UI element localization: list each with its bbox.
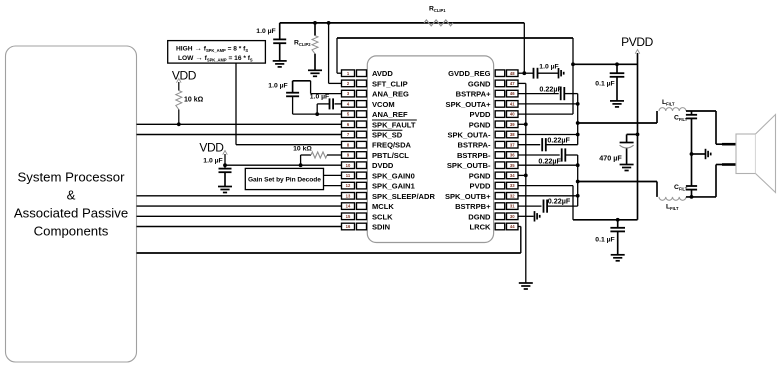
label C_FILT (top) bbox=[674, 115, 688, 123]
pin 31 BSTRPB+ (right) bbox=[455, 202, 518, 211]
svg-text:LRCK: LRCK bbox=[470, 223, 492, 232]
label 0.1 uF (C10) bbox=[595, 80, 614, 87]
wire PGND pin34 stub bbox=[518, 174, 526, 176]
ground (C11) bbox=[620, 165, 634, 171]
power PVDD label bbox=[621, 35, 653, 49]
pin 2 SFT_CLIP (left) bbox=[342, 79, 408, 88]
wire filter B junction bbox=[686, 196, 716, 198]
svg-text:1.0 µF: 1.0 µF bbox=[256, 28, 275, 35]
wire output B to filter bbox=[578, 182, 657, 197]
svg-text:38: 38 bbox=[510, 132, 515, 137]
pin 33 PVDD (right) bbox=[470, 182, 518, 191]
pin 16 SDIN (left) bbox=[342, 223, 391, 232]
label 10 kOhm (R1) bbox=[184, 97, 204, 104]
svg-text:VDD: VDD bbox=[172, 69, 197, 83]
svg-text:470 µF: 470 µF bbox=[599, 154, 622, 163]
node PGND pin34 junction bbox=[524, 174, 528, 178]
svg-text:39: 39 bbox=[510, 122, 515, 127]
pin 41 SPK_OUTA+ (right) bbox=[446, 100, 518, 109]
capacitor C8 0.22uF (BSTRPB-) bbox=[518, 148, 578, 195]
wire SFT_CLIP top rail bbox=[280, 22, 525, 24]
wire SPK_OUTA- stub bbox=[518, 134, 578, 136]
svg-text:SDIN: SDIN bbox=[372, 223, 390, 232]
svg-text:10: 10 bbox=[346, 163, 351, 168]
wire SPK_GAIN0 net bbox=[324, 174, 342, 176]
system processor block bbox=[6, 46, 137, 362]
terminal VDD (lower) bbox=[223, 151, 228, 155]
wire MCLK net (processor to pin 14) bbox=[137, 205, 342, 207]
svg-text:10 kΩ: 10 kΩ bbox=[184, 97, 204, 104]
pin 5 ANA_REF (left) bbox=[342, 110, 409, 119]
svg-text:48: 48 bbox=[510, 71, 515, 76]
pin 30 DGND (right) bbox=[468, 212, 518, 221]
svg-text:16: 16 bbox=[346, 224, 351, 229]
capacitor C3 1.0 uF (VCOM) bbox=[317, 98, 341, 114]
node SFT_CLIP branch bbox=[327, 21, 331, 25]
svg-text:1.0 µF: 1.0 µF bbox=[310, 93, 329, 100]
label L_FILT (top) bbox=[662, 99, 675, 107]
label L_FILT (bottom) bbox=[666, 204, 679, 212]
svg-text:36: 36 bbox=[510, 153, 515, 158]
wire SDIN net (processor to pin 16) bbox=[137, 226, 342, 228]
node R2/DVDD junction bbox=[299, 163, 303, 167]
node DVDD/C4 junction bbox=[223, 163, 227, 167]
svg-text:Associated Passive: Associated Passive bbox=[14, 206, 128, 221]
wire SPK_FAULT net (processor to pin 6) bbox=[137, 123, 342, 125]
svg-text:14: 14 bbox=[346, 204, 351, 209]
node SPK_OUTB+ junction bbox=[576, 194, 580, 198]
ground (filter midpoint, sideways) bbox=[692, 149, 711, 159]
node 470uF junction bbox=[636, 133, 640, 137]
speaker terminal - (thick) bbox=[722, 163, 737, 166]
label 0.22uF (C6) bbox=[539, 85, 562, 94]
svg-text:SCLK: SCLK bbox=[372, 212, 393, 221]
svg-text:37: 37 bbox=[510, 142, 515, 147]
pin 3 ANA_REG (left) bbox=[342, 90, 410, 99]
svg-text:1.0 µF: 1.0 µF bbox=[203, 157, 222, 164]
speaker terminal + (thick) bbox=[722, 143, 737, 146]
note box FREQ select bbox=[168, 41, 266, 64]
node SPK_OUTA+ junction bbox=[576, 102, 580, 106]
pin 34 PGND (right) bbox=[469, 171, 518, 180]
wire FREQ/SDA net (note box to pin 8) bbox=[236, 63, 342, 145]
wire SCLK net (processor to pin 15) bbox=[137, 215, 342, 217]
wire GGND/PGND ground rail bbox=[518, 83, 526, 283]
ground (C5, sideways) bbox=[559, 68, 564, 78]
svg-text:PVDD: PVDD bbox=[470, 182, 492, 191]
label 0.1 uF (C12) bbox=[595, 236, 614, 243]
wire AVDD net (pin 1 up and over to PVDD rail) bbox=[337, 38, 638, 114]
wire filter A to speaker bbox=[686, 111, 724, 144]
capacitor C2 1.0 uF (ANA_REG) bbox=[286, 81, 299, 114]
pin 37 BSTRPA- (right) bbox=[458, 141, 518, 150]
op-amp U1 (TAS5760 amplifier IC body) bbox=[367, 56, 493, 243]
pin 8 FREQ/SDA (left) bbox=[342, 141, 412, 150]
svg-text:LFILT: LFILT bbox=[666, 204, 679, 212]
inductor L_FILT (top) bbox=[659, 108, 686, 111]
pin 1 AVDD (left) bbox=[342, 69, 394, 78]
svg-text:BSTRPB+: BSTRPB+ bbox=[455, 202, 491, 211]
inductor L_FILT (bottom) bbox=[659, 197, 686, 200]
svg-text:35: 35 bbox=[510, 163, 515, 168]
svg-text:13: 13 bbox=[346, 193, 351, 198]
node filter midpoint bbox=[690, 152, 694, 156]
svg-text:1.0 µF: 1.0 µF bbox=[539, 63, 558, 70]
svg-text:PVDD: PVDD bbox=[470, 110, 492, 119]
ground (C1) bbox=[273, 61, 287, 67]
terminal VDD (upper) bbox=[177, 79, 182, 83]
pin 36 BSTRPB- (right) bbox=[457, 151, 518, 160]
label R_CLIP1 bbox=[429, 6, 446, 14]
pin 35 SPK_OUTB- (right) bbox=[447, 161, 518, 170]
svg-text:CFILT: CFILT bbox=[674, 184, 688, 192]
label 1.0 uF (C2) bbox=[268, 82, 287, 89]
svg-text:AVDD: AVDD bbox=[372, 69, 393, 78]
svg-text:12: 12 bbox=[346, 183, 351, 188]
svg-text:47: 47 bbox=[510, 81, 515, 86]
svg-text:46: 46 bbox=[510, 91, 515, 96]
label 1.0 uF (C3) bbox=[310, 93, 329, 100]
svg-text:Gain Set by Pin Decode: Gain Set by Pin Decode bbox=[248, 177, 321, 184]
label 470 uF (C11) bbox=[599, 154, 622, 163]
svg-text:RCLIP2: RCLIP2 bbox=[294, 40, 311, 48]
svg-text:FREQ/SDA: FREQ/SDA bbox=[372, 141, 412, 150]
pin 38 SPK_OUTA- (right) bbox=[447, 131, 518, 140]
svg-text:BSTRPA+: BSTRPA+ bbox=[456, 90, 491, 99]
power VDD label (lower) bbox=[199, 141, 224, 155]
svg-text:&: & bbox=[67, 188, 76, 203]
svg-text:System Processor: System Processor bbox=[18, 170, 126, 185]
svg-text:40: 40 bbox=[510, 112, 515, 117]
capacitor C_FILT (bottom) bbox=[686, 154, 697, 197]
label R_CLIP2 bbox=[294, 40, 311, 48]
svg-text:VCOM: VCOM bbox=[372, 100, 395, 109]
node ANA_REF junction bbox=[315, 112, 319, 116]
svg-text:SPK_SLEEP/ADR: SPK_SLEEP/ADR bbox=[372, 192, 435, 201]
wire PVDD pin33 route bbox=[518, 186, 573, 220]
resistor R1 10 kOhm pull-up bbox=[176, 82, 182, 124]
capacitor C1 1.0 uF (SFT_CLIP) bbox=[273, 23, 286, 61]
label 1.0 uF (C1) bbox=[256, 28, 275, 35]
wire GVDD_REG stub bbox=[518, 72, 524, 74]
wire DVDD net (VDD to pin 10) bbox=[225, 154, 342, 165]
wire filter B to speaker bbox=[716, 165, 724, 197]
capacitor C_FILT (top) bbox=[686, 111, 697, 154]
pin 9 PBTL/SCL (left) bbox=[342, 151, 410, 160]
svg-text:1.0 µF: 1.0 µF bbox=[268, 82, 287, 89]
svg-text:SPK_FAULT: SPK_FAULT bbox=[372, 120, 416, 129]
svg-text:MCLK: MCLK bbox=[372, 202, 394, 211]
svg-text:SFT_CLIP: SFT_CLIP bbox=[372, 79, 408, 88]
svg-text:0.22µF: 0.22µF bbox=[548, 196, 571, 205]
svg-text:GVDD_REG: GVDD_REG bbox=[448, 69, 490, 78]
svg-text:SPK_GAIN0: SPK_GAIN0 bbox=[372, 171, 415, 180]
pin 13 SPK_SLEEP/ADR (left) bbox=[342, 192, 436, 201]
node bottom 0.1uF junction bbox=[616, 218, 620, 222]
svg-text:15: 15 bbox=[346, 214, 351, 219]
wire SPK_SLEEP/ADR net (processor to pin 13) bbox=[137, 195, 342, 197]
wire PVDD rail bbox=[637, 53, 639, 220]
node PGND pin39 junction bbox=[524, 122, 528, 126]
pin 44 LRCK (right) bbox=[470, 223, 518, 232]
wire PGND pin39 stub bbox=[518, 123, 526, 125]
wire LRCK net (processor around bottom to pin 44) bbox=[137, 227, 521, 254]
pin 11 SPK_GAIN0 (left) bbox=[342, 171, 415, 180]
svg-text:11: 11 bbox=[346, 173, 351, 178]
capacitor C7 0.22uF (BSTRPA-) bbox=[518, 138, 578, 151]
svg-text:ANA_REF: ANA_REF bbox=[372, 110, 408, 119]
capacitor C5 1.0 uF (GVDD_REG) bbox=[524, 68, 558, 79]
svg-text:30: 30 bbox=[510, 214, 515, 219]
svg-text:0.1 µF: 0.1 µF bbox=[595, 80, 614, 87]
pin 14 MCLK (left) bbox=[342, 202, 395, 211]
label 0.22uF (C9) bbox=[548, 196, 571, 205]
capacitor C12 0.1 uF (PVDD bottom) bbox=[610, 220, 625, 255]
wire output rail A bbox=[577, 104, 579, 145]
node PVDD/0.1uF junction bbox=[615, 62, 619, 66]
power VDD label (upper) bbox=[172, 69, 197, 83]
node SPK_FAULT/R1 junction bbox=[177, 122, 181, 126]
pin 46 BSTRPA+ (right) bbox=[456, 90, 518, 99]
node R_CLIP2 junction bbox=[313, 21, 317, 25]
svg-text:32: 32 bbox=[510, 193, 515, 198]
speaker bbox=[736, 115, 776, 193]
node filter branch A bbox=[576, 121, 580, 125]
ground (DGND, sideways) bbox=[535, 211, 540, 221]
svg-text:DGND: DGND bbox=[468, 212, 491, 221]
svg-text:0.22µF: 0.22µF bbox=[547, 136, 570, 145]
svg-text:DVDD: DVDD bbox=[372, 161, 394, 170]
label 1.0 uF (C5) bbox=[539, 63, 558, 70]
node AVDD/PVDD tie bbox=[571, 62, 575, 66]
pin 12 SPK_GAIN1 (left) bbox=[342, 182, 415, 191]
pin 4 VCOM (left) bbox=[342, 100, 395, 109]
wire ANA_REG net bbox=[293, 81, 342, 94]
svg-text:PVDD: PVDD bbox=[621, 35, 653, 49]
terminal PVDD bbox=[635, 50, 640, 54]
svg-text:SPK_OUTA-: SPK_OUTA- bbox=[447, 131, 491, 140]
svg-text:41: 41 bbox=[510, 102, 515, 107]
capacitor C11 470 uF electrolytic bbox=[620, 134, 638, 164]
svg-text:33: 33 bbox=[510, 183, 515, 188]
svg-text:PBTL/SCL: PBTL/SCL bbox=[372, 151, 409, 160]
svg-text:44: 44 bbox=[510, 224, 515, 229]
svg-text:SPK_GAIN1: SPK_GAIN1 bbox=[372, 182, 415, 191]
pin 48 GVDD_REG (right) bbox=[448, 69, 518, 78]
svg-text:PGND: PGND bbox=[469, 171, 491, 180]
resistor R_CLIP2 bbox=[312, 23, 318, 70]
label 0.22uF (C7) bbox=[547, 136, 570, 145]
label 1.0 uF (C4) bbox=[203, 157, 222, 164]
svg-text:CFILT: CFILT bbox=[674, 115, 688, 123]
svg-text:0.22µF: 0.22µF bbox=[539, 85, 562, 94]
ground (C12) bbox=[611, 255, 625, 261]
svg-text:ANA_REG: ANA_REG bbox=[372, 90, 409, 99]
gain set by pin decode box bbox=[245, 168, 323, 189]
wire PVDD pin40 stub bbox=[518, 113, 573, 115]
node filter branch B bbox=[576, 180, 580, 184]
node SPK_OUTB- junction bbox=[576, 163, 580, 167]
capacitor C9 0.22uF (BSTRPB+) bbox=[518, 196, 578, 213]
pin 10 DVDD (left) bbox=[342, 161, 394, 170]
node C_FILT bottom junction bbox=[690, 195, 694, 199]
svg-text:SPK_OUTA+: SPK_OUTA+ bbox=[446, 100, 492, 109]
wire SFT_CLIP drop to pin 2 bbox=[329, 23, 342, 84]
pin 32 SPK_OUTB+ (right) bbox=[445, 192, 518, 201]
label 0.22uF (C8) bbox=[538, 156, 561, 165]
svg-text:BSTRPB-: BSTRPB- bbox=[457, 151, 491, 160]
ground (C10) bbox=[610, 101, 624, 107]
wire SPK_SD net (processor to pin 7) bbox=[137, 134, 342, 136]
capacitor C10 0.1 uF (PVDD top) bbox=[610, 64, 625, 101]
svg-text:PGND: PGND bbox=[469, 120, 491, 129]
svg-text:LFILT: LFILT bbox=[662, 99, 675, 107]
ground (DVDD cap) bbox=[218, 187, 232, 193]
ground (R_CLIP2) bbox=[308, 70, 322, 76]
svg-text:31: 31 bbox=[510, 204, 515, 209]
svg-text:34: 34 bbox=[510, 173, 515, 178]
node GVDD_REG junction bbox=[522, 71, 526, 75]
pin 47 GGND (right) bbox=[468, 79, 518, 88]
label 10 kOhm (R2) bbox=[293, 145, 312, 152]
svg-text:SPK_OUTB-: SPK_OUTB- bbox=[447, 161, 491, 170]
wire ANA_REF net bbox=[293, 113, 342, 115]
wire SPK_OUTB+ stub bbox=[518, 195, 578, 197]
pin 6 SPK_FAULT (left) bbox=[342, 120, 417, 129]
wire top rail to GVDD_REG bbox=[523, 23, 525, 73]
svg-text:BSTRPA-: BSTRPA- bbox=[458, 141, 491, 150]
ground (ground rail bottom) bbox=[519, 283, 533, 289]
svg-text:0.22µF: 0.22µF bbox=[538, 156, 561, 165]
resistor R2 10 kOhm (PBTL/SCL) bbox=[301, 152, 342, 165]
wire output A to filter bbox=[578, 111, 657, 123]
svg-text:Components: Components bbox=[34, 224, 109, 239]
svg-text:GGND: GGND bbox=[468, 79, 491, 88]
wire PVDD bottom rail bbox=[573, 219, 638, 221]
node SPK_OUTA- junction bbox=[576, 133, 580, 137]
pin 39 PGND (right) bbox=[469, 120, 518, 129]
label C_FILT (bottom) bbox=[674, 184, 688, 192]
pin 7 SPK_SD (left) bbox=[342, 130, 403, 139]
svg-text:SPK_SD: SPK_SD bbox=[372, 131, 403, 140]
svg-text:VDD: VDD bbox=[199, 141, 224, 155]
svg-text:RCLIP1: RCLIP1 bbox=[429, 6, 446, 14]
capacitor C6 0.22uF (BSTRPA+) bbox=[518, 87, 578, 104]
svg-text:0.1 µF: 0.1 µF bbox=[595, 236, 614, 243]
svg-text:SPK_OUTB+: SPK_OUTB+ bbox=[445, 192, 491, 201]
svg-text:10 kΩ: 10 kΩ bbox=[293, 145, 312, 152]
capacitor C4 1.0 uF (DVDD decoupling) bbox=[219, 165, 232, 186]
wire SPK_OUTB- stub bbox=[518, 164, 578, 166]
pin 40 PVDD (right) bbox=[470, 110, 518, 119]
resistor R_CLIP1 bbox=[424, 20, 453, 26]
pin 15 SCLK (left) bbox=[342, 212, 394, 221]
wire DGND stub bbox=[518, 215, 534, 217]
wire SPK_GAIN1 net bbox=[324, 185, 342, 187]
wire SPK_OUTA+ stub bbox=[518, 103, 578, 105]
